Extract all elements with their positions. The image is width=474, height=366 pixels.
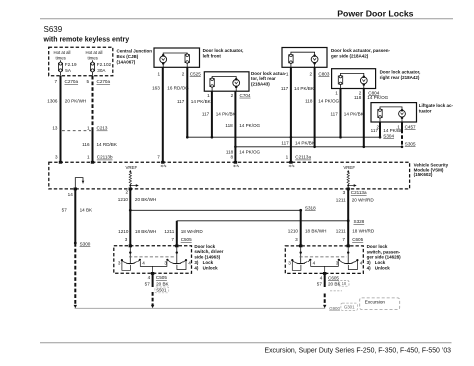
svg-text:tuator: tuator — [419, 109, 432, 114]
svg-text:1211: 1211 — [336, 198, 346, 203]
ground G301 (gray dashed box) — [341, 303, 358, 310]
svg-text:7: 7 — [54, 79, 57, 84]
connector C505 pin 4 — [148, 275, 168, 280]
svg-text:Door lock actuator, passen-: Door lock actuator, passen- — [331, 48, 391, 53]
splice S501 (gray dashed box) — [155, 287, 169, 293]
svg-text:116: 116 — [82, 142, 90, 147]
svg-text:16 RD/OG: 16 RD/OG — [167, 86, 189, 91]
svg-text:1: 1 — [286, 71, 289, 76]
svg-text:18 BK/WH: 18 BK/WH — [135, 229, 156, 234]
ground bus line (gray) — [75, 307, 326, 309]
svg-text:1: 1 — [157, 71, 160, 76]
svg-text:Excursion, Super Duty Series F: Excursion, Super Duty Series F-250, F-35… — [264, 348, 451, 355]
svg-text:times: times — [88, 55, 98, 60]
svg-text:Door lock actuator,: Door lock actuator, — [380, 69, 421, 74]
svg-text:C704: C704 — [240, 93, 251, 98]
VSM internal jumper to pin 14 — [75, 178, 84, 189]
svg-text:G301: G301 — [344, 305, 355, 310]
svg-text:14 PK/OG: 14 PK/OG — [367, 95, 388, 100]
wire S300 to ground bus (dashed) — [74, 243, 77, 308]
splice S305 — [401, 146, 404, 149]
svg-text:VREF: VREF — [125, 165, 137, 170]
svg-text:1210: 1210 — [288, 229, 299, 234]
svg-text:C505: C505 — [181, 237, 192, 242]
svg-text:2: 2 — [182, 71, 185, 76]
svg-text:1: 1 — [207, 93, 210, 98]
svg-text:F2.102: F2.102 — [97, 62, 112, 67]
VSM top pins 7, 8 and C2113a pin 1 labels — [157, 155, 311, 160]
svg-text:F2.19: F2.19 — [65, 62, 77, 67]
svg-text:C2113b: C2113b — [97, 155, 113, 160]
wire 1210 20 BK/WH (VSM pin 2 down) — [118, 189, 157, 246]
svg-text:117: 117 — [281, 141, 289, 146]
VSM bottom pin 3 / C2113a — [343, 190, 367, 195]
motor M right rear — [360, 76, 367, 89]
svg-text:C270a: C270a — [97, 79, 111, 84]
wire 1306 20 PK/WH (circuit from F2.19 down to C2113b pin 3) — [47, 76, 86, 162]
svg-text:20 PK/WH: 20 PK/WH — [65, 98, 86, 103]
option note 18 (gray dashed box) — [339, 281, 349, 287]
wire 1211 18 WH/RD (down to driver switch pin 7) — [164, 221, 203, 246]
svg-text:Unlock: Unlock — [203, 265, 219, 270]
splice S328 — [347, 219, 365, 224]
svg-text:S305: S305 — [405, 141, 416, 146]
svg-text:5A: 5A — [65, 68, 72, 73]
passenger switch mechanical linkage — [300, 256, 347, 258]
svg-text:14 PK/BK: 14 PK/BK — [295, 141, 316, 146]
svg-text:S304: S304 — [383, 133, 394, 138]
svg-text:Unlock: Unlock — [375, 266, 391, 271]
svg-text:14 PK/BK: 14 PK/BK — [344, 112, 365, 117]
internal continuation mark pin 8 — [234, 165, 239, 167]
svg-text:Door lock: Door lock — [367, 244, 388, 249]
svg-text:4: 4 — [360, 261, 363, 266]
motor M left rear — [233, 78, 240, 91]
passenger switch common bracket to pin 4 — [311, 261, 339, 273]
svg-text:18 WH/RD: 18 WH/RD — [352, 229, 375, 234]
wire 117 14 PK/BK (right rear pin1 to lock rail) — [330, 89, 364, 138]
wire 163 16 RD/OG (left front pin1 to VSM pin 7) — [152, 67, 189, 161]
svg-text:Door lock: Door lock — [194, 244, 215, 249]
door lock actuator left rear 218A43 (box U2) — [204, 71, 286, 91]
positioner element left rear — [210, 77, 236, 92]
svg-text:C270a: C270a — [65, 79, 79, 84]
svg-text:2: 2 — [310, 71, 313, 76]
svg-text:14 PK/OG: 14 PK/OG — [239, 150, 260, 155]
svg-text:C605: C605 — [352, 237, 363, 242]
svg-text:4: 4 — [148, 275, 151, 280]
ground G900 (gray) — [329, 306, 340, 311]
switch box connector pin caps — [129, 245, 350, 275]
svg-text:times: times — [56, 55, 66, 60]
driver switch mechanical linkage — [129, 256, 176, 258]
svg-text:3: 3 — [55, 155, 58, 160]
svg-text:3: 3 — [343, 190, 346, 195]
svg-text:C605: C605 — [328, 275, 339, 280]
svg-text:7: 7 — [171, 237, 174, 242]
svg-text:Door lock actua-: Door lock actua- — [251, 71, 287, 76]
svg-text:14 PK/BK: 14 PK/BK — [294, 86, 315, 91]
svg-text:Excursion: Excursion — [365, 299, 386, 304]
svg-text:1: 1 — [286, 155, 289, 160]
svg-text:C505: C505 — [156, 275, 167, 280]
connector C457 pins 2,1 — [376, 124, 416, 129]
internal continuation mark C2113a pin 1 — [289, 165, 294, 167]
splice marker (gray dashed line) — [330, 290, 342, 292]
svg-text:Hot at all: Hot at all — [86, 50, 103, 55]
svg-text:14 PK/BK: 14 PK/BK — [216, 112, 237, 117]
wire 57 14 BK (VSM pin 14 to S300) — [62, 189, 93, 243]
connector C525 pins 1,2 — [157, 71, 201, 76]
connector C605 pin 4 — [320, 275, 340, 280]
door lock switch passenger side 14628 (dashed box) — [285, 244, 401, 274]
wire 117 14 PK/BK (left rear pin1 to lock rail) — [202, 91, 237, 137]
footer rule — [40, 342, 452, 344]
svg-text:57: 57 — [62, 208, 68, 213]
svg-text:3: 3 — [288, 261, 291, 266]
VREF resistor left — [125, 165, 138, 189]
svg-text:1211: 1211 — [336, 229, 346, 234]
motor M passenger side — [311, 54, 318, 67]
svg-text:with remote keyless entry: with remote keyless entry — [43, 36, 130, 43]
connector C213 (in-line) — [52, 126, 108, 131]
svg-text:C457: C457 — [405, 124, 416, 129]
positioner element left front — [163, 53, 189, 67]
connector C704 pins 1,2 — [207, 93, 251, 98]
svg-text:57: 57 — [317, 281, 323, 286]
svg-text:20 WH/RD: 20 WH/RD — [352, 198, 375, 203]
connector C270a pin 5 — [86, 79, 110, 84]
svg-text:20 BK: 20 BK — [156, 282, 169, 287]
svg-text:4): 4) — [194, 265, 199, 270]
svg-text:2: 2 — [125, 190, 128, 195]
svg-text:(15K602): (15K602) — [414, 172, 433, 177]
svg-text:1210: 1210 — [118, 197, 129, 202]
wire 117 14 PK/BK (left front pin2 to lock rail) — [177, 67, 212, 137]
svg-text:S501: S501 — [156, 288, 167, 293]
wire S328 to driver switch (horizontal) — [177, 220, 348, 222]
connector C804 pins 1,2 — [335, 91, 379, 96]
driver switch lock side (pin 3) — [118, 246, 145, 270]
svg-text:117: 117 — [281, 86, 289, 91]
svg-text:3: 3 — [118, 261, 121, 266]
svg-text:S639: S639 — [44, 25, 63, 34]
svg-text:side (14963): side (14963) — [194, 255, 220, 260]
VREF resistor right — [343, 165, 356, 189]
svg-text:1: 1 — [87, 126, 90, 131]
wire 118 14 PK/OG (left rear pin2 down to VSM pin 8) — [225, 91, 260, 161]
junction on 1210 wire — [129, 209, 132, 212]
positioner element right rear — [338, 73, 364, 88]
door lock actuator right rear 218A42 (box U4) — [332, 69, 421, 89]
svg-text:Box (CJB): Box (CJB) — [117, 54, 139, 59]
svg-text:118: 118 — [225, 123, 233, 128]
header rule — [40, 18, 453, 20]
svg-text:14 PK/OG: 14 PK/OG — [239, 123, 260, 128]
wire driver ground (dashed) to bus — [151, 292, 154, 308]
svg-text:3): 3) — [194, 260, 199, 265]
svg-text:14 PK/OG: 14 PK/OG — [318, 99, 339, 104]
VSM connector pin caps — [59, 161, 350, 190]
wire 116 14 RD/BK (C213 to C2113b pin 1) — [82, 127, 118, 161]
wire to splice S318 (horizontal) — [130, 209, 300, 211]
wire 118 14 PK/OG (right rear pin2 to unlock rail) — [354, 89, 389, 147]
svg-text:C803: C803 — [318, 71, 329, 76]
Excursion variant note (dashed box) — [360, 298, 400, 310]
svg-text:117: 117 — [202, 112, 210, 117]
svg-text:117: 117 — [371, 128, 379, 133]
fuse F2.102 30A — [90, 60, 111, 76]
svg-text:13: 13 — [52, 126, 58, 131]
vehicle security module VSM (dashed box) — [49, 162, 449, 189]
wire 57 20 BK (driver switch ground) — [145, 273, 170, 287]
svg-text:VREF: VREF — [343, 165, 355, 170]
svg-text:S318: S318 — [305, 205, 316, 210]
connector C2113b pins 3 and 1 — [55, 155, 113, 160]
connector C270a pin 7 — [54, 79, 78, 84]
connector C803 pins 1,2 — [286, 71, 330, 76]
svg-text:14: 14 — [68, 192, 74, 197]
svg-text:4: 4 — [320, 275, 323, 280]
svg-text:Power Door Locks: Power Door Locks — [337, 9, 413, 19]
motor M liftgate — [399, 109, 406, 122]
lock rail 117 (horizontal) — [186, 136, 381, 139]
svg-text:1: 1 — [335, 91, 338, 96]
svg-text:switch, driver: switch, driver — [194, 249, 223, 254]
svg-text:1: 1 — [87, 155, 90, 160]
positioner element liftgate — [378, 107, 402, 122]
unlock rail 118 (horizontal) — [234, 146, 403, 149]
svg-text:3): 3) — [367, 260, 372, 265]
wire 1210 18 BK/WH (S318 down to passenger switch pin 3) — [288, 210, 327, 246]
svg-text:8: 8 — [230, 155, 233, 160]
svg-text:C525: C525 — [190, 71, 201, 76]
wire 118 14 PK/OG (passenger front pin2 to unlock rail) — [305, 67, 339, 147]
wire 57 20 BK (passenger switch ground) — [317, 273, 342, 287]
wire 1211 20 WH/RD (VSM pin 3 down) — [336, 189, 375, 246]
svg-text:163: 163 — [152, 86, 160, 91]
door lock actuator left front (box U1) — [154, 48, 243, 67]
svg-text:Door lock actuator,: Door lock actuator, — [203, 48, 244, 53]
svg-text:C2113a: C2113a — [295, 155, 311, 160]
motor M left front — [160, 54, 167, 67]
svg-text:14 RD/BK: 14 RD/BK — [97, 142, 118, 147]
svg-text:1306: 1306 — [47, 98, 58, 103]
passenger switch unlock side (pin 7) — [336, 246, 363, 270]
splice S318 — [299, 205, 316, 211]
svg-text:117: 117 — [330, 112, 338, 117]
svg-text:tor, left rear: tor, left rear — [251, 76, 276, 81]
svg-text:117: 117 — [177, 99, 185, 104]
svg-text:3: 3 — [295, 237, 298, 242]
liftgate lock actuator (box U5) — [371, 103, 454, 122]
svg-text:7: 7 — [157, 155, 160, 160]
svg-text:Lock: Lock — [203, 260, 214, 265]
svg-text:left front: left front — [203, 53, 222, 58]
positioner element passenger side — [289, 52, 315, 67]
svg-text:(14A067): (14A067) — [117, 60, 136, 65]
svg-text:4: 4 — [313, 261, 316, 266]
svg-text:5: 5 — [86, 79, 89, 84]
svg-text:14 PK/BK: 14 PK/BK — [191, 99, 212, 104]
wire from F2.102 (dashed) down to C213 — [92, 76, 94, 128]
svg-text:20 BK/WH: 20 BK/WH — [135, 197, 156, 202]
svg-text:1210: 1210 — [118, 229, 129, 234]
svg-text:2: 2 — [231, 93, 234, 98]
svg-text:Lock: Lock — [375, 260, 386, 265]
svg-text:C2113a: C2113a — [351, 190, 367, 195]
svg-text:30A: 30A — [97, 68, 106, 73]
svg-text:Central Junction: Central Junction — [117, 49, 153, 54]
driver switch unlock side (pin 7) — [164, 246, 191, 270]
svg-text:4): 4) — [367, 266, 372, 271]
svg-text:4: 4 — [188, 261, 191, 266]
svg-text:ger side (14628): ger side (14628) — [367, 255, 402, 260]
wire 117 14 PK/BK (passenger front pin1 down to C2113a pin 1) — [281, 67, 316, 161]
svg-text:(218A43): (218A43) — [251, 81, 270, 86]
Central Junction Box CJB (dashed box) — [49, 47, 153, 76]
svg-text:G900: G900 — [329, 306, 340, 311]
driver switch common bracket to pin 4 — [140, 261, 167, 273]
fuse F2.19 5A — [58, 60, 77, 76]
svg-text:Liftgate lock ac-: Liftgate lock ac- — [419, 103, 454, 108]
splice S300 — [74, 241, 91, 246]
svg-text:3: 3 — [125, 237, 128, 242]
svg-text:1211: 1211 — [164, 229, 174, 234]
svg-text:4: 4 — [142, 261, 145, 266]
svg-text:118: 118 — [354, 95, 362, 100]
wire passenger ground (dashed) to G900 — [323, 294, 326, 309]
svg-text:18: 18 — [342, 281, 347, 286]
door lock switch driver side 14963 (dashed box) — [114, 244, 224, 273]
svg-text:C213: C213 — [97, 126, 108, 131]
svg-text:right rear (218A42): right rear (218A42) — [380, 75, 420, 80]
svg-text:7: 7 — [342, 237, 345, 242]
svg-text:S300: S300 — [80, 241, 91, 246]
svg-text:118: 118 — [305, 99, 313, 104]
svg-text:ger side (218A42): ger side (218A42) — [331, 53, 369, 58]
svg-text:S328: S328 — [354, 219, 365, 224]
svg-text:18 BK/WH: 18 BK/WH — [305, 229, 326, 234]
passenger switch lock side (pin 3) — [288, 246, 315, 270]
splice S304 — [379, 136, 382, 139]
svg-text:14 BK: 14 BK — [80, 208, 93, 213]
svg-text:18 WH/RD: 18 WH/RD — [181, 229, 204, 234]
svg-text:switch, passen-: switch, passen- — [367, 249, 401, 254]
internal continuation mark pin 7 — [161, 165, 166, 167]
wire liftgate pin1 (dashed) to splice S305 — [402, 122, 416, 147]
svg-text:Hot at all: Hot at all — [54, 50, 71, 55]
svg-text:57: 57 — [145, 282, 151, 287]
wire 117 14 PK/BK (liftgate pin2 to splice S304) — [371, 122, 404, 138]
door lock actuator passenger side 218A42 (box U3) — [282, 48, 391, 68]
